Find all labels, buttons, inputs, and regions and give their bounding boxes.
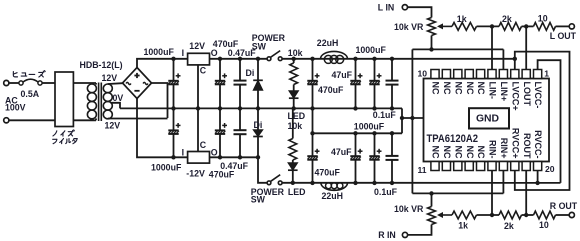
node — [196, 106, 200, 110]
node — [410, 116, 414, 120]
svg-text:I: I — [182, 48, 184, 58]
label 10 — [538, 13, 548, 23]
bridge rectifier D1 — [123, 68, 152, 99]
svg-text:Di: Di — [246, 68, 255, 78]
svg-text:0.1uF: 0.1uF — [373, 110, 397, 120]
node — [218, 155, 222, 159]
label 22uH — [322, 191, 344, 201]
label 1000uF — [356, 45, 387, 55]
L OUT terminal — [569, 24, 574, 29]
diode D2 — [253, 59, 263, 109]
svg-text:20: 20 — [545, 164, 555, 174]
svg-text:1000uF: 1000uF — [354, 122, 385, 132]
node — [238, 57, 242, 111]
resistor R3 1k — [452, 23, 476, 31]
svg-text:470uF: 470uF — [315, 167, 341, 177]
node — [171, 57, 175, 111]
inductor L2 22uH — [321, 183, 348, 191]
R OUT terminal — [569, 212, 574, 217]
wire VR1 cold — [431, 36, 433, 50]
label 2k — [502, 14, 512, 24]
node LOUT — [524, 24, 528, 28]
noise filter box — [55, 72, 73, 127]
transformer T1 core — [99, 83, 102, 122]
svg-text:I: I — [182, 148, 184, 158]
svg-text:LED: LED — [288, 111, 306, 121]
svg-text:22uH: 22uH — [322, 191, 344, 201]
svg-text:NC: NC — [442, 146, 452, 159]
node — [171, 155, 175, 159]
svg-text:LIN-: LIN- — [488, 82, 498, 100]
svg-text:1k: 1k — [457, 14, 467, 24]
wire secondary center tap — [111, 103, 121, 109]
wire — [477, 214, 500, 216]
label L OUT — [550, 31, 577, 41]
svg-text:1: 1 — [544, 69, 549, 79]
svg-text:22uH: 22uH — [317, 38, 339, 48]
svg-text:ROUT: ROUT — [522, 133, 532, 159]
wire RVCC- feed — [537, 171, 539, 183]
wire — [73, 119, 96, 121]
svg-text:10k VR: 10k VR — [394, 22, 424, 32]
wire GND bus R — [412, 192, 503, 194]
wire -12V line — [210, 156, 259, 158]
label 1000uF — [144, 47, 175, 57]
U3 top pins — [431, 70, 542, 79]
wire LIN+ drop — [502, 49, 504, 69]
svg-text:R IN: R IN — [378, 230, 396, 240]
wire secondary bottom tap — [108, 118, 168, 120]
pin number 1 — [544, 69, 549, 79]
wire bridge - down — [137, 99, 188, 158]
svg-text:RIN+: RIN+ — [499, 138, 509, 159]
wire — [282, 58, 515, 60]
regulator U1 12V — [188, 53, 210, 65]
label 10k VR — [394, 22, 424, 32]
capacitor C5 470uF — [215, 108, 227, 157]
svg-text:NC: NC — [465, 146, 475, 159]
inductor L1 22uH — [321, 51, 348, 63]
U3 bottom pins — [431, 162, 542, 171]
wire — [408, 7, 432, 17]
wire U2 C pin — [197, 108, 199, 151]
svg-text:Di: Di — [254, 120, 263, 130]
svg-text:0V: 0V — [113, 93, 124, 103]
svg-text:1000uF: 1000uF — [151, 163, 182, 173]
op-amp U3 TPA6120A2 body — [424, 79, 550, 162]
node — [256, 155, 260, 159]
node — [372, 131, 376, 185]
transformer T1 secondary winding — [103, 84, 112, 119]
svg-text:GND: GND — [476, 114, 500, 125]
svg-text:C: C — [200, 140, 207, 150]
node — [535, 181, 539, 185]
capacitor C6 0.47uF — [234, 108, 247, 157]
transformer T1 primary winding — [87, 83, 96, 120]
potentiometer VR2 10k — [428, 207, 452, 225]
capacitor C11 470uF — [307, 108, 319, 182]
svg-text:-12V: -12V — [186, 168, 205, 178]
wire GND bus L — [412, 48, 503, 50]
label 12V — [189, 41, 205, 51]
wire — [9, 82, 19, 84]
capacitor C2 470uF — [215, 59, 227, 109]
U3 bottom pin labels — [431, 128, 544, 159]
svg-text:NC: NC — [476, 146, 486, 159]
resistor R8 10 — [534, 211, 556, 219]
label O — [211, 148, 218, 158]
svg-text:LOUT: LOUT — [522, 82, 532, 107]
wire -12V drop — [258, 157, 267, 183]
wire GND rail — [120, 107, 402, 109]
node GND-link — [400, 116, 404, 120]
pin number 10 — [418, 69, 428, 79]
svg-text:1000uF: 1000uF — [356, 45, 387, 55]
capacitor C7 470uF — [307, 59, 319, 109]
wire -12V rail — [282, 182, 560, 184]
wire LOUT drop — [525, 26, 527, 69]
label LED — [288, 187, 306, 197]
wire — [556, 25, 570, 27]
wire +12V loop — [515, 52, 570, 190]
svg-text:0.5A: 0.5A — [21, 89, 40, 99]
wire bridge + to rail — [137, 59, 188, 68]
wire GND lower rail — [313, 132, 403, 134]
svg-text:12V: 12V — [102, 73, 118, 83]
node — [353, 57, 357, 111]
label 0.47uF — [228, 48, 256, 58]
wire GND link right — [401, 108, 403, 133]
node — [238, 155, 242, 159]
svg-text:12V: 12V — [105, 121, 121, 131]
svg-text:0.47uF: 0.47uF — [220, 161, 248, 171]
node — [256, 57, 260, 111]
svg-text:12V: 12V — [189, 41, 205, 51]
svg-text:470uF: 470uF — [318, 85, 344, 95]
svg-text:RVCC+: RVCC+ — [510, 128, 520, 159]
capacitor C13 1000uF — [369, 133, 381, 183]
label 0V center tap — [113, 93, 124, 103]
svg-text:NC: NC — [442, 82, 452, 95]
label AC 100V — [5, 96, 26, 113]
wire L/R gnd vertical — [411, 49, 413, 193]
label 10 — [539, 220, 549, 230]
label 47uF — [331, 147, 352, 157]
wire bridge ~ right — [152, 83, 168, 118]
resistor R6 1k — [452, 211, 476, 219]
wire +12V rail — [210, 58, 268, 60]
label 470uF — [315, 167, 341, 177]
label I — [182, 48, 184, 58]
AC input terminal (neutral) — [4, 118, 9, 123]
label C — [200, 140, 207, 150]
label 12V top tap — [102, 73, 118, 83]
resistor R1 10k — [290, 59, 298, 85]
svg-text:O: O — [211, 148, 218, 158]
switch SW2 POWER — [267, 175, 282, 185]
wire — [522, 25, 534, 27]
label 470uF — [209, 169, 235, 179]
diode D3 — [253, 108, 263, 157]
node — [429, 191, 433, 195]
wire — [556, 214, 570, 216]
label -12V — [186, 168, 205, 178]
node RIN- — [490, 213, 494, 217]
pin number 11 — [418, 165, 427, 175]
capacitor C3 0.47uF — [234, 59, 247, 109]
svg-text:2k: 2k — [504, 221, 514, 231]
capacitor C9 1000uF — [369, 59, 381, 109]
label Di — [246, 68, 255, 78]
label 0.1uF — [373, 110, 397, 120]
svg-text:2k: 2k — [502, 14, 512, 24]
label 470uF — [318, 85, 344, 95]
label LED — [288, 111, 306, 121]
svg-text:LIN+: LIN+ — [499, 82, 509, 102]
label POWER SW — [251, 187, 285, 205]
svg-text:0.1uF: 0.1uF — [374, 187, 398, 197]
label 12V bottom tap — [105, 121, 121, 131]
label 0.1uF — [374, 187, 398, 197]
svg-text:L OUT: L OUT — [550, 31, 577, 41]
label POWER SW — [252, 33, 286, 52]
wire ROUT rise — [525, 171, 527, 216]
wire RIN- rise — [491, 171, 493, 216]
svg-text:11: 11 — [418, 165, 427, 175]
node — [353, 131, 357, 185]
LED D4 — [289, 85, 299, 109]
capacitor C10 0.1uF — [386, 59, 399, 109]
svg-text:TPA6120A2: TPA6120A2 — [427, 133, 479, 145]
label 47uF — [332, 70, 353, 80]
R IN terminal — [402, 232, 407, 237]
wire VR2 top — [431, 193, 433, 206]
AC input terminal (hot) — [4, 80, 9, 85]
node — [291, 181, 295, 185]
svg-text:SW: SW — [251, 195, 266, 205]
svg-text:1k: 1k — [458, 220, 468, 230]
resistor R4 2k — [499, 23, 522, 31]
svg-text:LVCC+: LVCC+ — [510, 82, 520, 111]
svg-text:10k VR: 10k VR — [394, 204, 424, 214]
node — [310, 131, 314, 185]
wire LVCC+ feed — [514, 59, 516, 70]
svg-text:47uF: 47uF — [332, 70, 353, 80]
label fuse — [13, 71, 45, 77]
svg-text:RIN-: RIN- — [488, 140, 498, 159]
wire RIN+ rise — [502, 171, 504, 194]
label 2k — [504, 221, 514, 231]
label 1000uF — [151, 163, 182, 173]
label 0.47uF — [220, 161, 248, 171]
wire LIN- drop — [491, 26, 493, 69]
svg-text:10: 10 — [539, 220, 549, 230]
svg-text:NC: NC — [431, 146, 441, 159]
svg-text:NC: NC — [476, 82, 486, 95]
resistor R5 10 — [534, 23, 556, 31]
svg-text:47uF: 47uF — [331, 147, 352, 157]
svg-text:1000uF: 1000uF — [144, 47, 175, 57]
wire U1 C pin — [197, 65, 199, 109]
label O — [211, 48, 218, 58]
U3 top pin labels — [431, 82, 544, 111]
label 10k — [288, 121, 303, 131]
svg-text:HDB-12(L): HDB-12(L) — [80, 60, 123, 70]
U3 GND box — [469, 108, 509, 128]
LED D5 — [288, 160, 298, 183]
svg-text:SW: SW — [252, 41, 267, 51]
svg-text:100V: 100V — [5, 103, 26, 113]
L IN terminal — [402, 5, 407, 10]
regulator U2 -12V — [188, 152, 210, 164]
svg-text:NC: NC — [465, 82, 475, 95]
svg-text:10: 10 — [418, 69, 428, 79]
label L IN — [378, 3, 394, 13]
label 1k — [457, 14, 467, 24]
label R OUT — [550, 201, 578, 211]
capacitor C1 1000uF — [168, 59, 180, 109]
svg-text:C: C — [200, 66, 207, 76]
svg-text:L IN: L IN — [378, 3, 394, 13]
svg-text:10: 10 — [538, 13, 548, 23]
label 0.5A — [21, 89, 40, 99]
wire LVCC- feed — [538, 60, 561, 183]
label 1000uF — [354, 122, 385, 132]
svg-text:R OUT: R OUT — [550, 201, 578, 211]
node — [218, 57, 222, 111]
resistor R2 10k — [289, 108, 297, 160]
node — [390, 57, 394, 111]
node — [372, 57, 376, 111]
fuse F1 0.5A — [19, 79, 42, 85]
resistor R7 2k — [499, 211, 522, 219]
svg-text:LED: LED — [288, 187, 306, 197]
capacitor C12 47uF — [350, 133, 362, 183]
node ROUT — [524, 213, 528, 217]
svg-text:NC: NC — [431, 82, 441, 95]
svg-text:NC: NC — [453, 82, 463, 95]
label TPA6120A2 — [427, 133, 479, 145]
label 10k — [288, 48, 303, 58]
node — [310, 57, 314, 111]
wire — [522, 214, 534, 216]
wire — [408, 225, 432, 235]
wire GND to amp — [402, 117, 469, 119]
svg-text:LVCC-: LVCC- — [533, 82, 543, 109]
pin number 20 — [545, 164, 555, 174]
potentiometer VR1 10k — [428, 18, 452, 36]
label R IN — [378, 230, 396, 240]
node — [390, 131, 394, 185]
wire — [73, 82, 96, 84]
capacitor C8 47uF — [350, 59, 362, 109]
svg-text:10k: 10k — [288, 48, 303, 58]
label 1k — [458, 220, 468, 230]
svg-text:10k: 10k — [288, 121, 303, 131]
label 10k VR — [394, 204, 424, 214]
label Di — [254, 120, 263, 130]
wire secondary top tap — [108, 82, 123, 85]
label 470uF — [213, 39, 239, 49]
node — [513, 57, 517, 61]
svg-text:O: O — [211, 48, 218, 58]
svg-text:NC: NC — [453, 146, 463, 159]
node LIN- — [490, 24, 494, 28]
label noise filter — [53, 130, 77, 144]
capacitor C14 0.1uF — [386, 133, 399, 183]
wire — [9, 119, 55, 121]
node — [429, 47, 433, 51]
wire — [42, 82, 55, 84]
capacitor C4 1000uF — [168, 108, 180, 157]
switch SW1 POWER — [267, 51, 282, 61]
label C — [200, 66, 207, 76]
svg-text:RVCC-: RVCC- — [533, 130, 543, 158]
label I — [182, 148, 184, 158]
wire — [477, 25, 500, 27]
label HDB-12(L) — [80, 60, 123, 70]
node — [292, 57, 296, 111]
label 22uH — [317, 38, 339, 48]
